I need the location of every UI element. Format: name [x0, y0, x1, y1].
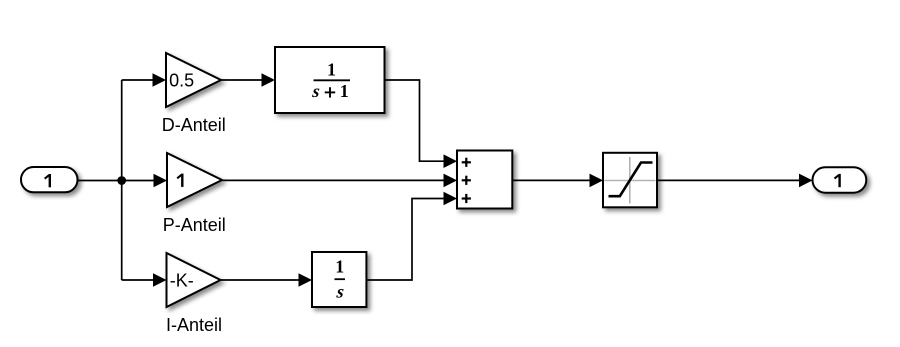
wire sum to saturation — [512, 174, 603, 188]
wire P-gain to sum input 2 — [222, 174, 457, 188]
svg-text:D-Anteil: D-Anteil — [162, 115, 226, 135]
inport 1 — [21, 167, 78, 192]
gain D-Anteil (0.5) — [166, 53, 221, 107]
transfer fcn block 1/(s+1) — [275, 47, 385, 113]
svg-text:-K-: -K- — [170, 271, 194, 291]
gain P value 1 — [177, 174, 182, 187]
wire branch to P-gain — [122, 174, 167, 188]
sum block U1 — [457, 151, 512, 209]
svg-text:P-Anteil: P-Anteil — [163, 215, 226, 235]
wire transfer fcn to sum input 1 — [385, 80, 458, 168]
sum plus sign 3 — [462, 194, 471, 203]
integrator fraction bar — [335, 278, 346, 280]
svg-text:1: 1 — [340, 81, 349, 101]
svg-text:0.5: 0.5 — [169, 71, 194, 91]
inport 1 label — [45, 174, 50, 187]
wire integrator to sum input 3 — [366, 192, 457, 280]
wire D-gain to transfer fcn — [221, 73, 275, 87]
wire branch to I-gain — [122, 273, 167, 287]
wire inport to junction — [78, 180, 122, 182]
svg-text:1: 1 — [335, 257, 344, 277]
sum plus sign 2 — [462, 176, 471, 185]
integrator block 1/s — [312, 252, 366, 307]
svg-text:I-Anteil: I-Anteil — [166, 315, 222, 335]
saturation curve — [609, 163, 653, 197]
sum plus sign 1 — [462, 158, 471, 167]
gain P-Anteil (1) — [167, 153, 222, 207]
outport 1 — [813, 167, 867, 192]
transfer fcn fraction bar — [314, 79, 351, 81]
gain I-Anteil (-K-) — [167, 253, 221, 307]
wire branch vertical — [121, 80, 123, 280]
wire branch to D-gain — [122, 73, 166, 87]
saturation axes — [605, 157, 656, 204]
wire I-gain to integrator — [221, 273, 313, 287]
wire saturation to outport — [657, 174, 813, 188]
saturation block — [603, 153, 657, 208]
svg-text:1: 1 — [327, 59, 336, 79]
node junction — [117, 176, 126, 185]
outport 1 label — [835, 174, 840, 187]
